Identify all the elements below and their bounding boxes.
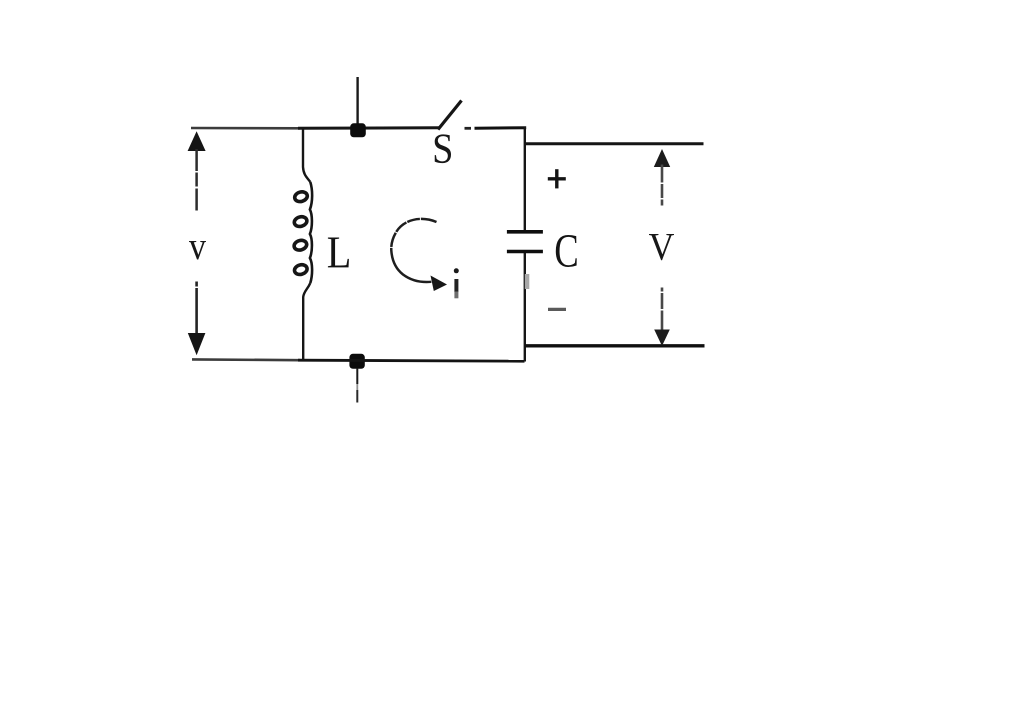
label i [454,268,459,298]
node top junction stub [356,77,358,125]
arrow v lower head [188,333,206,355]
inductor ring 2 [293,215,308,228]
minus sign [548,308,566,311]
wire top rail right segment [465,126,527,129]
wire right branch upper [524,127,526,231]
node bottom junction dot [349,354,364,369]
capacitor smudge [525,274,530,289]
capacitor C top plate [507,230,543,234]
current loop arrowhead [431,276,448,292]
label L [328,237,349,267]
arrow v upper line [195,149,198,211]
inductor ring 3 [293,239,308,252]
arrow V upper head [654,149,670,167]
capacitor C bottom plate [507,250,543,254]
inductor ring 4 [293,263,308,276]
label C [556,235,577,267]
arrow V lower head [654,330,670,347]
label v [189,241,206,259]
wire top rail left segment [191,127,439,130]
wire bottom-right rail [525,344,705,347]
wire right branch lower [524,253,526,362]
plus sign [548,169,566,188]
inductor L [293,129,312,359]
arrow V upper line [661,165,664,206]
arrow v lower line [195,282,198,336]
switch S blade [438,101,462,130]
wire bottom rail [192,359,525,361]
current loop arrow i arc [391,219,436,282]
node bottom junction stub [356,368,358,384]
wire top-right rail [526,142,704,145]
node top junction dot [350,123,366,137]
inductor ring 1 [294,190,309,203]
label S [435,134,451,163]
arrow v upper head [188,131,206,151]
arrow V lower line [661,288,664,332]
label V [649,234,674,260]
